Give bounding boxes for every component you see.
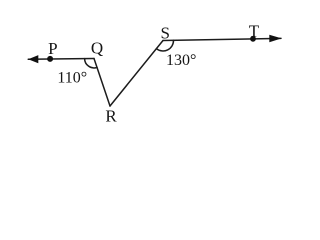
svg-text:R: R bbox=[105, 107, 117, 126]
svg-text:T: T bbox=[249, 22, 260, 41]
svg-text:110°: 110° bbox=[57, 69, 87, 86]
svg-text:Q: Q bbox=[91, 39, 103, 58]
svg-text:P: P bbox=[48, 39, 57, 58]
svg-text:130°: 130° bbox=[166, 52, 196, 69]
svg-text:S: S bbox=[160, 23, 169, 42]
